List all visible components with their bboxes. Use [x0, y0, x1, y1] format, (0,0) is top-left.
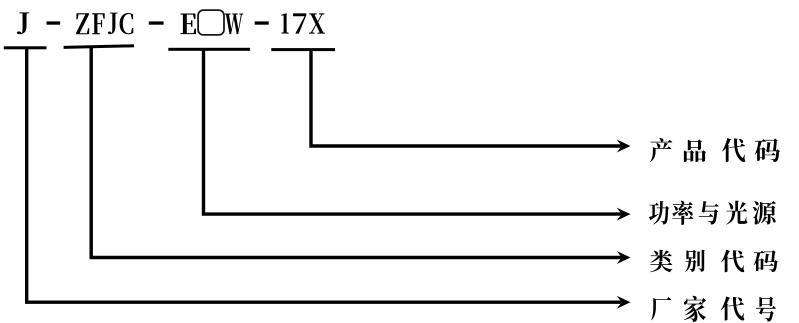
arrowhead to category code label — [617, 251, 631, 264]
underline under E-box-W — [168, 48, 250, 51]
label: power and light source (gong lv yu guang yuan) — [649, 201, 776, 225]
wire from J to manufacturer arrow — [27, 48, 623, 303]
blank box placeholder — [198, 10, 224, 35]
wire from E-box-W to power arrow — [204, 49, 623, 214]
text 17X (product number) — [281, 13, 325, 33]
label: category code (lei bie dai ma) — [650, 250, 778, 272]
arrowhead to manufacturer code label — [617, 296, 631, 309]
label: product code (chan pin dai ma) — [650, 138, 780, 162]
underline under J — [4, 46, 47, 49]
text E (power prefix) — [180, 14, 196, 35]
underline under 17X — [271, 48, 335, 51]
wire from 17X to product-code arrow — [311, 50, 623, 147]
dash separator 1 — [47, 21, 61, 24]
text J (manufacturer letter) — [17, 12, 30, 34]
label: manufacturer code (chang jia dai hao) — [651, 296, 776, 322]
text W (watt suffix) — [225, 14, 243, 35]
arrowhead to product code label — [617, 140, 631, 153]
text ZFJC (category letters) — [76, 13, 133, 35]
dash separator 3 — [255, 21, 269, 24]
arrowhead to power and light source label — [617, 208, 631, 221]
dash separator 2 — [149, 21, 164, 24]
wire from ZFJC to category arrow — [91, 47, 622, 258]
underline under ZFJC — [64, 46, 134, 48]
